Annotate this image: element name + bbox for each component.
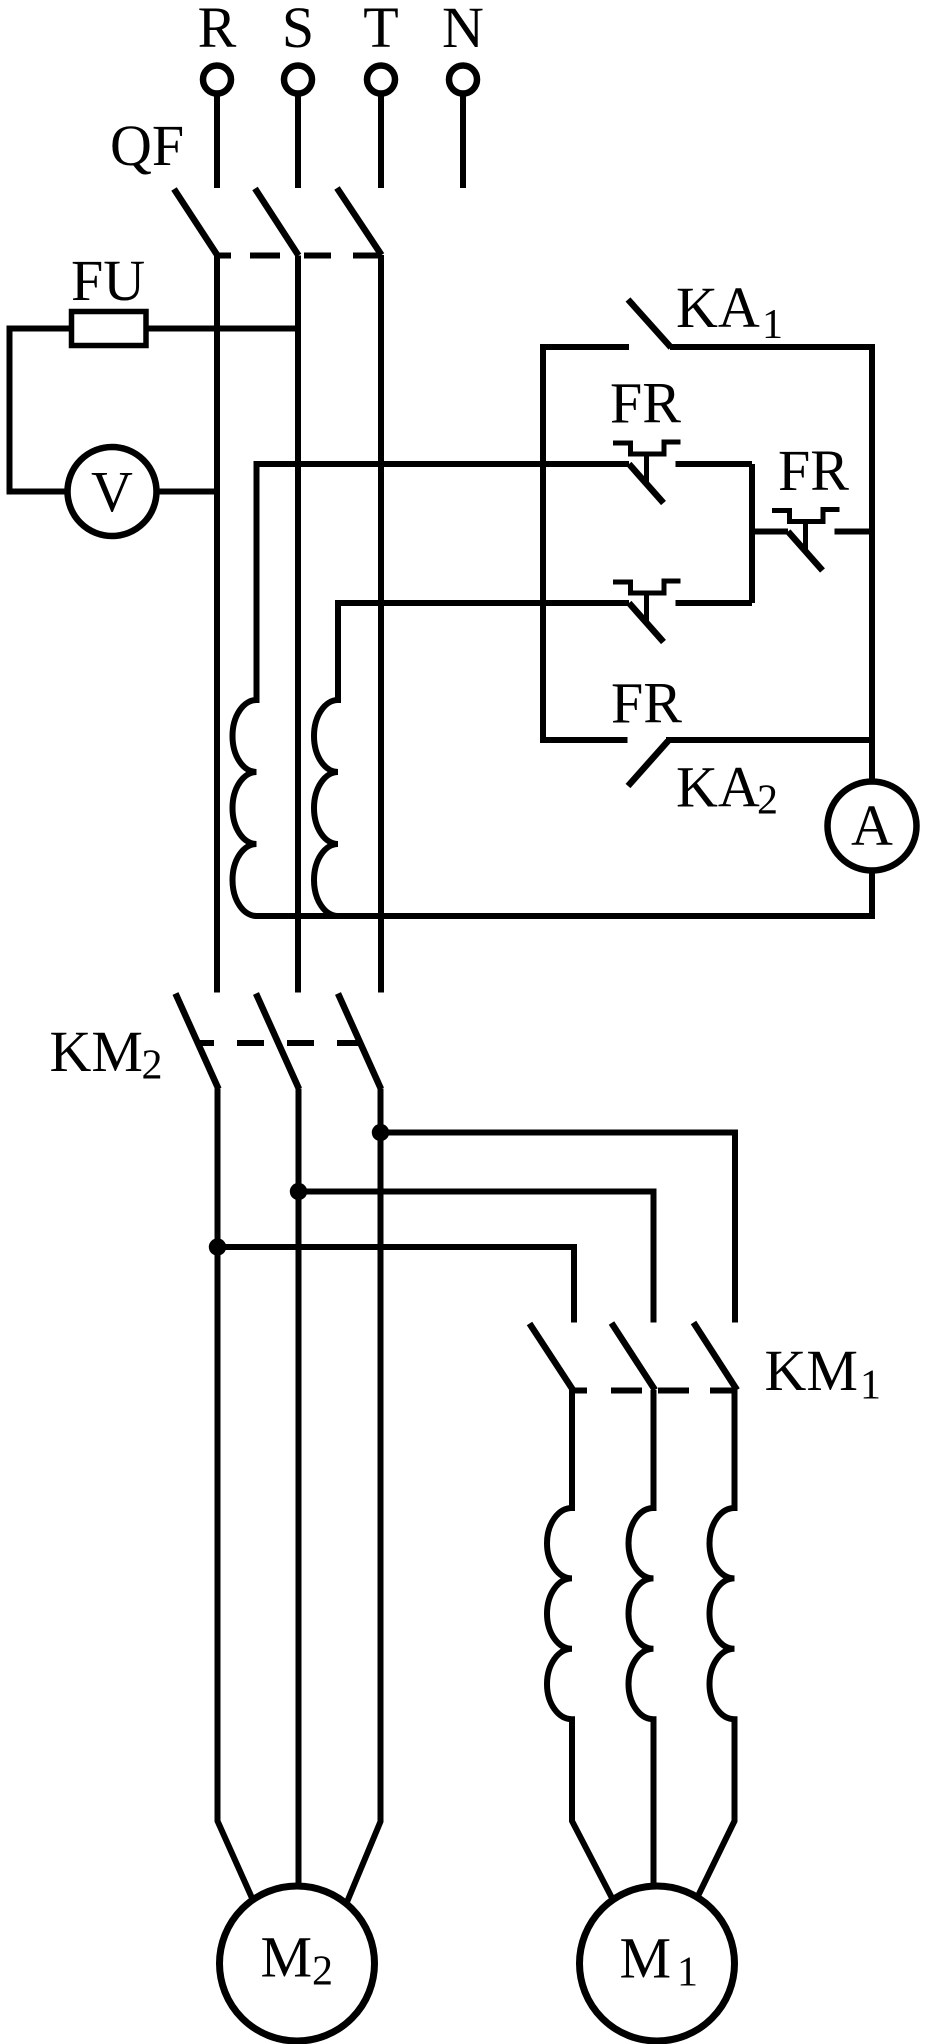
breaker QF pole 3 blade	[337, 188, 382, 255]
wire S tap to KM1	[299, 1192, 654, 1323]
svg-text:1: 1	[860, 1363, 881, 1409]
wire R phase QF to KM2	[214, 256, 220, 993]
svg-text:2: 2	[312, 1949, 333, 1995]
wire FR3 right	[676, 600, 753, 606]
wire S phase KM2 to motor M2	[296, 1089, 302, 1891]
inductor coil phase 1 to motor M1	[547, 1390, 612, 1898]
motor M1	[580, 1886, 735, 2041]
contact FR2 thermal symbol	[772, 510, 840, 571]
terminal S	[284, 66, 312, 94]
svg-text:KM: KM	[765, 1338, 858, 1403]
svg-text:KM: KM	[50, 1019, 143, 1084]
contact FR1 thermal symbol	[613, 442, 681, 503]
contactor KM2 pole 3 blade	[338, 994, 381, 1090]
fuse FU body	[72, 312, 147, 346]
terminal R	[203, 66, 231, 94]
wire fuse branch and voltmeter loop	[10, 329, 298, 492]
svg-text:S: S	[282, 0, 314, 60]
svg-text:2: 2	[757, 778, 778, 824]
inductor coil phase 3 to motor M1	[697, 1390, 735, 1898]
contactor KM2 dashed link	[196, 1040, 359, 1046]
wire R tap to KM1	[218, 1247, 575, 1323]
wire FR1 right	[676, 461, 753, 467]
terminal N	[449, 66, 477, 94]
wire R lead from terminal to QF	[214, 93, 220, 188]
wire T phase KM2 to motor M2	[347, 1089, 381, 1903]
voltmeter V	[68, 447, 157, 536]
contactor KM1 pole 3 blade	[694, 1323, 738, 1391]
svg-text:M: M	[261, 1925, 313, 1990]
svg-text:V: V	[91, 459, 133, 524]
wire KA2 right	[666, 737, 872, 743]
motor M2	[220, 1886, 375, 2041]
svg-text:KA: KA	[676, 755, 760, 820]
contactor KM2 pole 2 blade	[256, 994, 299, 1090]
svg-text:N: N	[442, 0, 484, 60]
wire relay box left side	[540, 344, 546, 743]
svg-text:1: 1	[677, 1950, 698, 1996]
wire FR1-FR3 right connector	[749, 464, 755, 603]
svg-text:1: 1	[762, 302, 783, 348]
svg-text:R: R	[198, 0, 237, 60]
svg-text:FR: FR	[611, 671, 682, 736]
breaker QF dashed link	[217, 253, 381, 259]
wire S phase QF to KM2	[295, 256, 301, 993]
node junction T tap	[372, 1124, 389, 1141]
terminal T	[367, 66, 395, 94]
svg-text:FU: FU	[71, 248, 145, 313]
wire N lead (unconnected)	[460, 93, 466, 188]
breaker QF pole 1 blade	[174, 189, 218, 256]
contactor KM2 pole 1 blade	[176, 994, 219, 1090]
wire S lead from terminal to QF	[295, 93, 301, 188]
wire T lead from terminal to QF	[378, 93, 384, 188]
wire KA1 left	[543, 344, 629, 350]
ammeter A	[828, 782, 917, 871]
inductor coil phase 2 to motor M1	[629, 1390, 654, 1890]
wire FR2 left	[752, 529, 788, 535]
svg-text:FR: FR	[778, 438, 849, 503]
svg-text:T: T	[363, 0, 398, 60]
svg-text:KA: KA	[676, 275, 760, 340]
wire KA1 right	[670, 344, 872, 350]
contact KA1 blade	[628, 300, 671, 348]
contactor KM1 pole 1 blade	[530, 1324, 574, 1391]
svg-text:A: A	[851, 793, 893, 858]
svg-text:M: M	[620, 1926, 672, 1991]
wire relay box right side down to ammeter	[869, 344, 875, 919]
contactor KM1 dashed link	[572, 1388, 736, 1394]
wire KA2 left	[543, 737, 628, 743]
node junction R tap	[209, 1238, 226, 1255]
node junction S tap	[290, 1183, 307, 1200]
contact FR3 thermal symbol lower	[314, 581, 681, 916]
svg-text:QF: QF	[110, 113, 184, 178]
wire FR1 left with coil L1 tap and bottom bus	[233, 464, 873, 916]
wire T phase QF to KM2	[378, 255, 384, 993]
contact KA2 blade	[628, 741, 668, 786]
wire FR2 right	[835, 529, 873, 535]
wire T tap to KM1	[381, 1133, 736, 1323]
svg-text:FR: FR	[610, 371, 681, 436]
wire R phase KM2 to motor M2	[218, 1089, 253, 1899]
breaker QF pole 2 blade	[255, 189, 299, 256]
svg-text:2: 2	[142, 1043, 163, 1089]
contactor KM1 pole 2 blade	[612, 1323, 656, 1390]
